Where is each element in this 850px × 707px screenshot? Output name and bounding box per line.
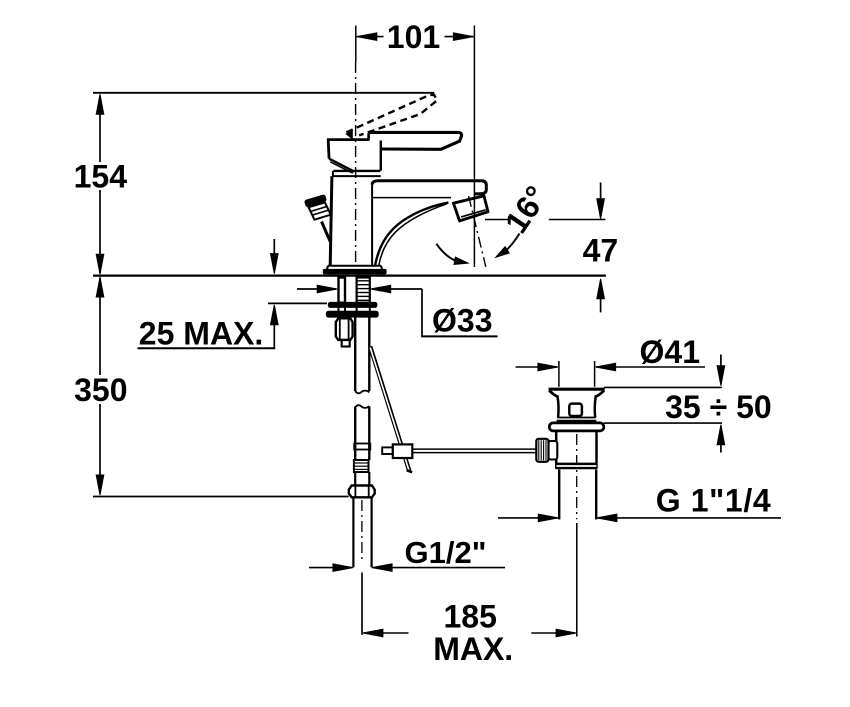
svg-text:MAX.: MAX.	[433, 631, 513, 667]
svg-text:Ø33: Ø33	[432, 302, 492, 338]
svg-text:47: 47	[583, 232, 619, 268]
svg-text:G1/2": G1/2"	[405, 535, 487, 570]
svg-text:G 1"1/4: G 1"1/4	[656, 483, 771, 519]
svg-text:350: 350	[74, 372, 127, 408]
svg-text:Ø41: Ø41	[640, 334, 700, 370]
svg-text:35 ÷ 50: 35 ÷ 50	[665, 389, 772, 425]
svg-text:101: 101	[387, 19, 440, 55]
svg-text:154: 154	[74, 158, 128, 194]
svg-text:185: 185	[444, 598, 497, 634]
svg-text:25 MAX.: 25 MAX.	[139, 316, 263, 352]
